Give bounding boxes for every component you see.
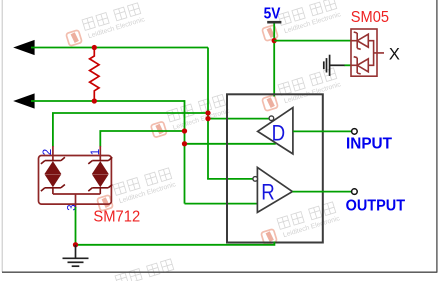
node: 5V junction — [272, 38, 277, 43]
wire: bus B to driver lower output — [185, 143, 276, 145]
node: ground junction — [73, 242, 78, 247]
wire: bus A vertical drop — [207, 48, 209, 179]
wire: 5V stem down to IC VCC pin — [273, 24, 275, 97]
transceiver IC body — [227, 94, 323, 242]
svg-text:SM712: SM712 — [93, 209, 140, 226]
wire: bus B to receiver lower input — [185, 203, 258, 205]
SM712 TVS element left (pin2) — [41, 157, 65, 194]
svg-text:5V: 5V — [264, 5, 281, 22]
driver inverting bubble — [269, 116, 274, 121]
wire: bus A to receiver inverting input — [207, 178, 253, 180]
SM712 pin 1 stub — [99, 146, 101, 161]
svg-text:2: 2 — [42, 149, 54, 155]
SM712 internal rail and pin 3 stem — [53, 194, 100, 208]
wire: SM712 pin 1 to bus B — [100, 131, 184, 147]
svg-text:D: D — [272, 122, 286, 146]
receiver inverting bubble — [253, 177, 258, 182]
page border lines (decorative) — [1, 0, 3, 272]
svg-text:1: 1 — [90, 149, 102, 155]
SM712 pin 2 stub — [52, 146, 54, 161]
op-amp style driver D — [258, 108, 293, 154]
wire: ground stub to SM05 lower pin — [345, 64, 352, 66]
node: junction bus A / driver branch — [205, 116, 210, 121]
wire: bus B horizontal — [31, 100, 185, 102]
svg-text:INPUT: INPUT — [346, 136, 392, 153]
wire: bus A horizontal — [31, 47, 208, 49]
terminal INPUT — [352, 129, 358, 135]
svg-text:SM05: SM05 — [351, 9, 389, 26]
node: resistor bottom junction on bus B — [92, 98, 97, 103]
node: junction bus A / 5V column upper — [205, 110, 210, 115]
wire: SM712 pin 3 to ground rail — [75, 207, 77, 245]
svg-text:3: 3 — [66, 204, 78, 210]
terminal OUTPUT — [352, 189, 358, 195]
ground (earth symbol below SM712) — [63, 245, 89, 266]
ground (SM05 side, rotated earth symbol) — [324, 55, 345, 76]
TVS array SM712 package — [39, 156, 112, 205]
wire: receiver output to OUTPUT terminal — [292, 191, 351, 193]
op-amp style receiver R — [257, 167, 292, 212]
resistor (termination between A and B) — [90, 48, 99, 102]
wire: ground rail to IC GND pin — [76, 242, 275, 245]
power symbol 5V — [267, 21, 281, 24]
wire: bus A branch to SM712 pin 2 — [53, 113, 208, 147]
wire: driver input to INPUT terminal — [293, 130, 352, 132]
SM712 TVS element right (pin1) — [88, 157, 112, 194]
connector arrow A (bus line A) — [13, 40, 34, 55]
svg-text:X: X — [389, 45, 400, 63]
node: junction bus B / SM712 pin1 wire — [182, 128, 187, 133]
wire: bus B vertical drop — [184, 100, 186, 204]
connector arrow B (bus line B) — [13, 93, 34, 108]
wire: 5V to SM05 upper pin — [274, 40, 351, 42]
node: resistor top junction on bus A — [92, 45, 97, 50]
watermark tiles (decorative) — [63, 0, 342, 281]
TVS diode SM05 — [351, 29, 384, 76]
wire: bus A branch to driver bubble output — [208, 118, 269, 120]
svg-text:OUTPUT: OUTPUT — [346, 197, 406, 214]
node: junction bus B / driver branch — [182, 141, 187, 146]
svg-text:R: R — [261, 181, 275, 205]
